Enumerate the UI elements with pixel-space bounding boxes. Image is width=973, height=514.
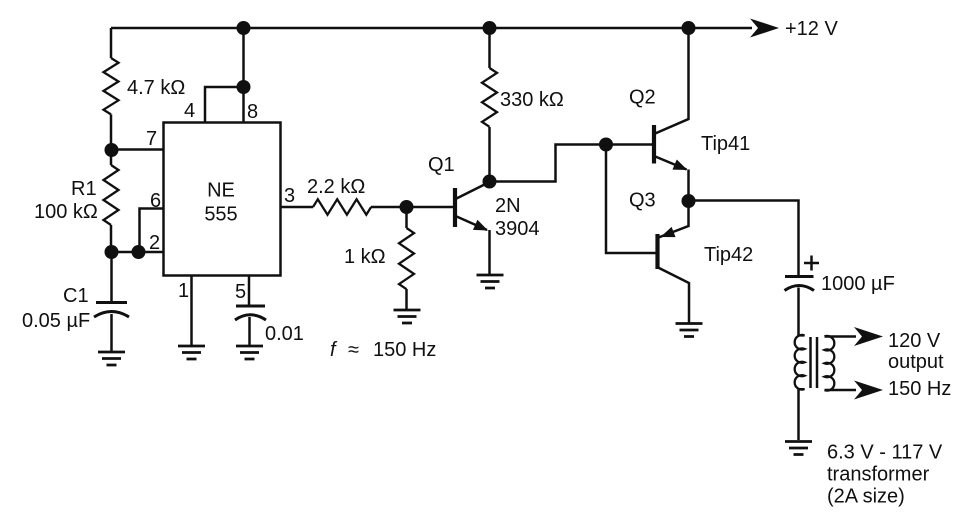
- svg-text:2N: 2N: [495, 195, 521, 217]
- svg-text:Q3: Q3: [629, 190, 656, 212]
- transistor Q1 emitter: [456, 216, 488, 230]
- svg-text:6.3 V - 117 V: 6.3 V - 117 V: [827, 442, 943, 464]
- arrow output top: [854, 327, 883, 346]
- svg-text:6: 6: [150, 190, 161, 212]
- svg-text:4: 4: [184, 100, 195, 122]
- ground Q3 collector: [676, 324, 703, 337]
- wire pin 2: [112, 251, 164, 254]
- svg-text:120 V: 120 V: [888, 330, 941, 352]
- wire pin 7: [112, 148, 164, 151]
- svg-text:Q2: Q2: [629, 87, 656, 109]
- svg-text:555: 555: [204, 204, 237, 226]
- svg-text:(2A size): (2A size): [827, 486, 905, 508]
- capacitor C1: [94, 303, 129, 318]
- wire C1 to ground: [110, 314, 113, 351]
- resistor 2.2k: [313, 199, 371, 214]
- transistor Q2 emitter arrow: [672, 159, 689, 175]
- transistor Q1 collector: [456, 182, 490, 199]
- wire output node to capacitor: [689, 201, 799, 277]
- transistor Q1 emitter arrow: [473, 220, 490, 236]
- transistor Q3 collector: [658, 268, 689, 323]
- wire +12V top rail: [111, 27, 752, 30]
- wire cap to transformer: [797, 288, 800, 336]
- transistor Q2 collector: [654, 28, 689, 134]
- node junction Q1 collector: [483, 175, 497, 189]
- wire R1 to node2: [110, 225, 113, 252]
- svg-text:0.01: 0.01: [265, 323, 304, 345]
- capacitor C2 1000uF plus sign: [804, 256, 819, 271]
- wire pin 5: [248, 276, 251, 307]
- wire 1k to ground: [405, 289, 408, 309]
- ground 0.01: [236, 346, 263, 359]
- ground 1k: [394, 310, 421, 323]
- transformer T1 core: [811, 337, 818, 388]
- svg-text:100 kΩ: 100 kΩ: [34, 201, 98, 223]
- resistor 330k: [482, 68, 497, 127]
- node junction pin7: [105, 143, 119, 157]
- svg-text:Q1: Q1: [428, 154, 455, 176]
- transistor Q2 emitter: [654, 156, 687, 170]
- transformer T1 primary winding: [795, 335, 805, 390]
- transistor Q3 emitter: [659, 201, 689, 238]
- svg-text:150 Hz: 150 Hz: [888, 378, 951, 400]
- ground pin1: [178, 346, 205, 359]
- wire Q1 emitter to ground: [488, 230, 491, 274]
- wire pin 3: [281, 206, 314, 209]
- wire node2 to C1: [110, 252, 113, 302]
- ground C1: [98, 352, 125, 365]
- node junction pin4-pin8: [237, 80, 251, 94]
- resistor R1: [104, 165, 119, 225]
- node junction rail-330k: [483, 21, 497, 35]
- ground Q1 emitter: [477, 275, 504, 288]
- svg-text:330 kΩ: 330 kΩ: [500, 89, 564, 111]
- svg-text:3904: 3904: [495, 218, 540, 240]
- svg-text:output: output: [888, 351, 944, 373]
- wire rail to 330k: [488, 28, 491, 68]
- op-amp U1 NE555 box: [164, 123, 281, 276]
- transistor Q3 emitter arrow: [659, 227, 676, 242]
- arrow output bottom: [854, 381, 883, 400]
- wire secondary top lead: [825, 335, 857, 338]
- transistor Q1 base bar: [453, 188, 457, 227]
- wire 4.7k to node7: [110, 114, 113, 165]
- wire 2.2k to Q1 base: [371, 206, 455, 209]
- svg-text:0.05 µF: 0.05 µF: [22, 310, 90, 332]
- capacitor 0.01: [235, 306, 266, 320]
- wire pin 4: [205, 87, 244, 123]
- wire pin 6: [140, 209, 164, 253]
- wire Q2 emitter down: [687, 170, 690, 202]
- capacitor C2 1000uF: [785, 277, 815, 291]
- svg-text:+12 V: +12 V: [785, 18, 838, 40]
- svg-text:5: 5: [235, 281, 246, 303]
- resistor 4.7k: [104, 58, 119, 114]
- svg-text:1000 µF: 1000 µF: [821, 273, 895, 295]
- svg-text:7: 7: [146, 128, 157, 150]
- svg-text:3: 3: [284, 185, 295, 207]
- svg-text:4.7 kΩ: 4.7 kΩ: [127, 77, 185, 99]
- wire pin 1: [190, 276, 193, 346]
- transistor Q3 base bar: [655, 234, 659, 269]
- svg-text:transformer: transformer: [827, 464, 930, 486]
- wire 0.01 cap to ground: [248, 317, 251, 345]
- svg-text:Tip42: Tip42: [704, 244, 753, 266]
- node junction Q2e-Q3e-output: [682, 194, 696, 208]
- wire Q1 collector to Q2 base: [490, 145, 655, 182]
- node junction rail-Q2 collector: [682, 21, 696, 35]
- transistor Q2 base bar: [652, 125, 656, 164]
- wire 330k to Q1 collector: [488, 127, 491, 182]
- node junction rail-pin8: [237, 21, 251, 35]
- svg-text:8: 8: [247, 101, 258, 123]
- wire secondary bottom lead: [825, 389, 857, 392]
- ground transformer: [785, 442, 812, 455]
- resistor 1k: [399, 228, 414, 289]
- wire left branch top: [110, 28, 113, 58]
- +12V supply arrow: [750, 19, 779, 38]
- wire pin 8: [242, 28, 245, 123]
- node junction R1-C1-pin2: [105, 245, 119, 259]
- wire node to 1k: [405, 207, 408, 228]
- svg-text:1 kΩ: 1 kΩ: [344, 246, 386, 268]
- svg-text:2.2 kΩ: 2.2 kΩ: [307, 176, 365, 198]
- node junction Q2 base net: [599, 138, 613, 152]
- svg-text:Tip41: Tip41: [701, 133, 750, 155]
- node junction 2.2k-1k-Q1: [400, 200, 414, 214]
- wire node to Q3 base: [606, 145, 658, 254]
- svg-text:C1: C1: [63, 285, 89, 307]
- svg-text:R1: R1: [71, 178, 97, 200]
- transformer T1 secondary winding: [825, 336, 835, 391]
- svg-text:NE: NE: [207, 180, 235, 202]
- wire primary to ground: [797, 389, 800, 440]
- svg-text:1: 1: [178, 280, 189, 302]
- node junction pin6-pin2: [132, 245, 146, 259]
- svg-text:2: 2: [149, 232, 160, 254]
